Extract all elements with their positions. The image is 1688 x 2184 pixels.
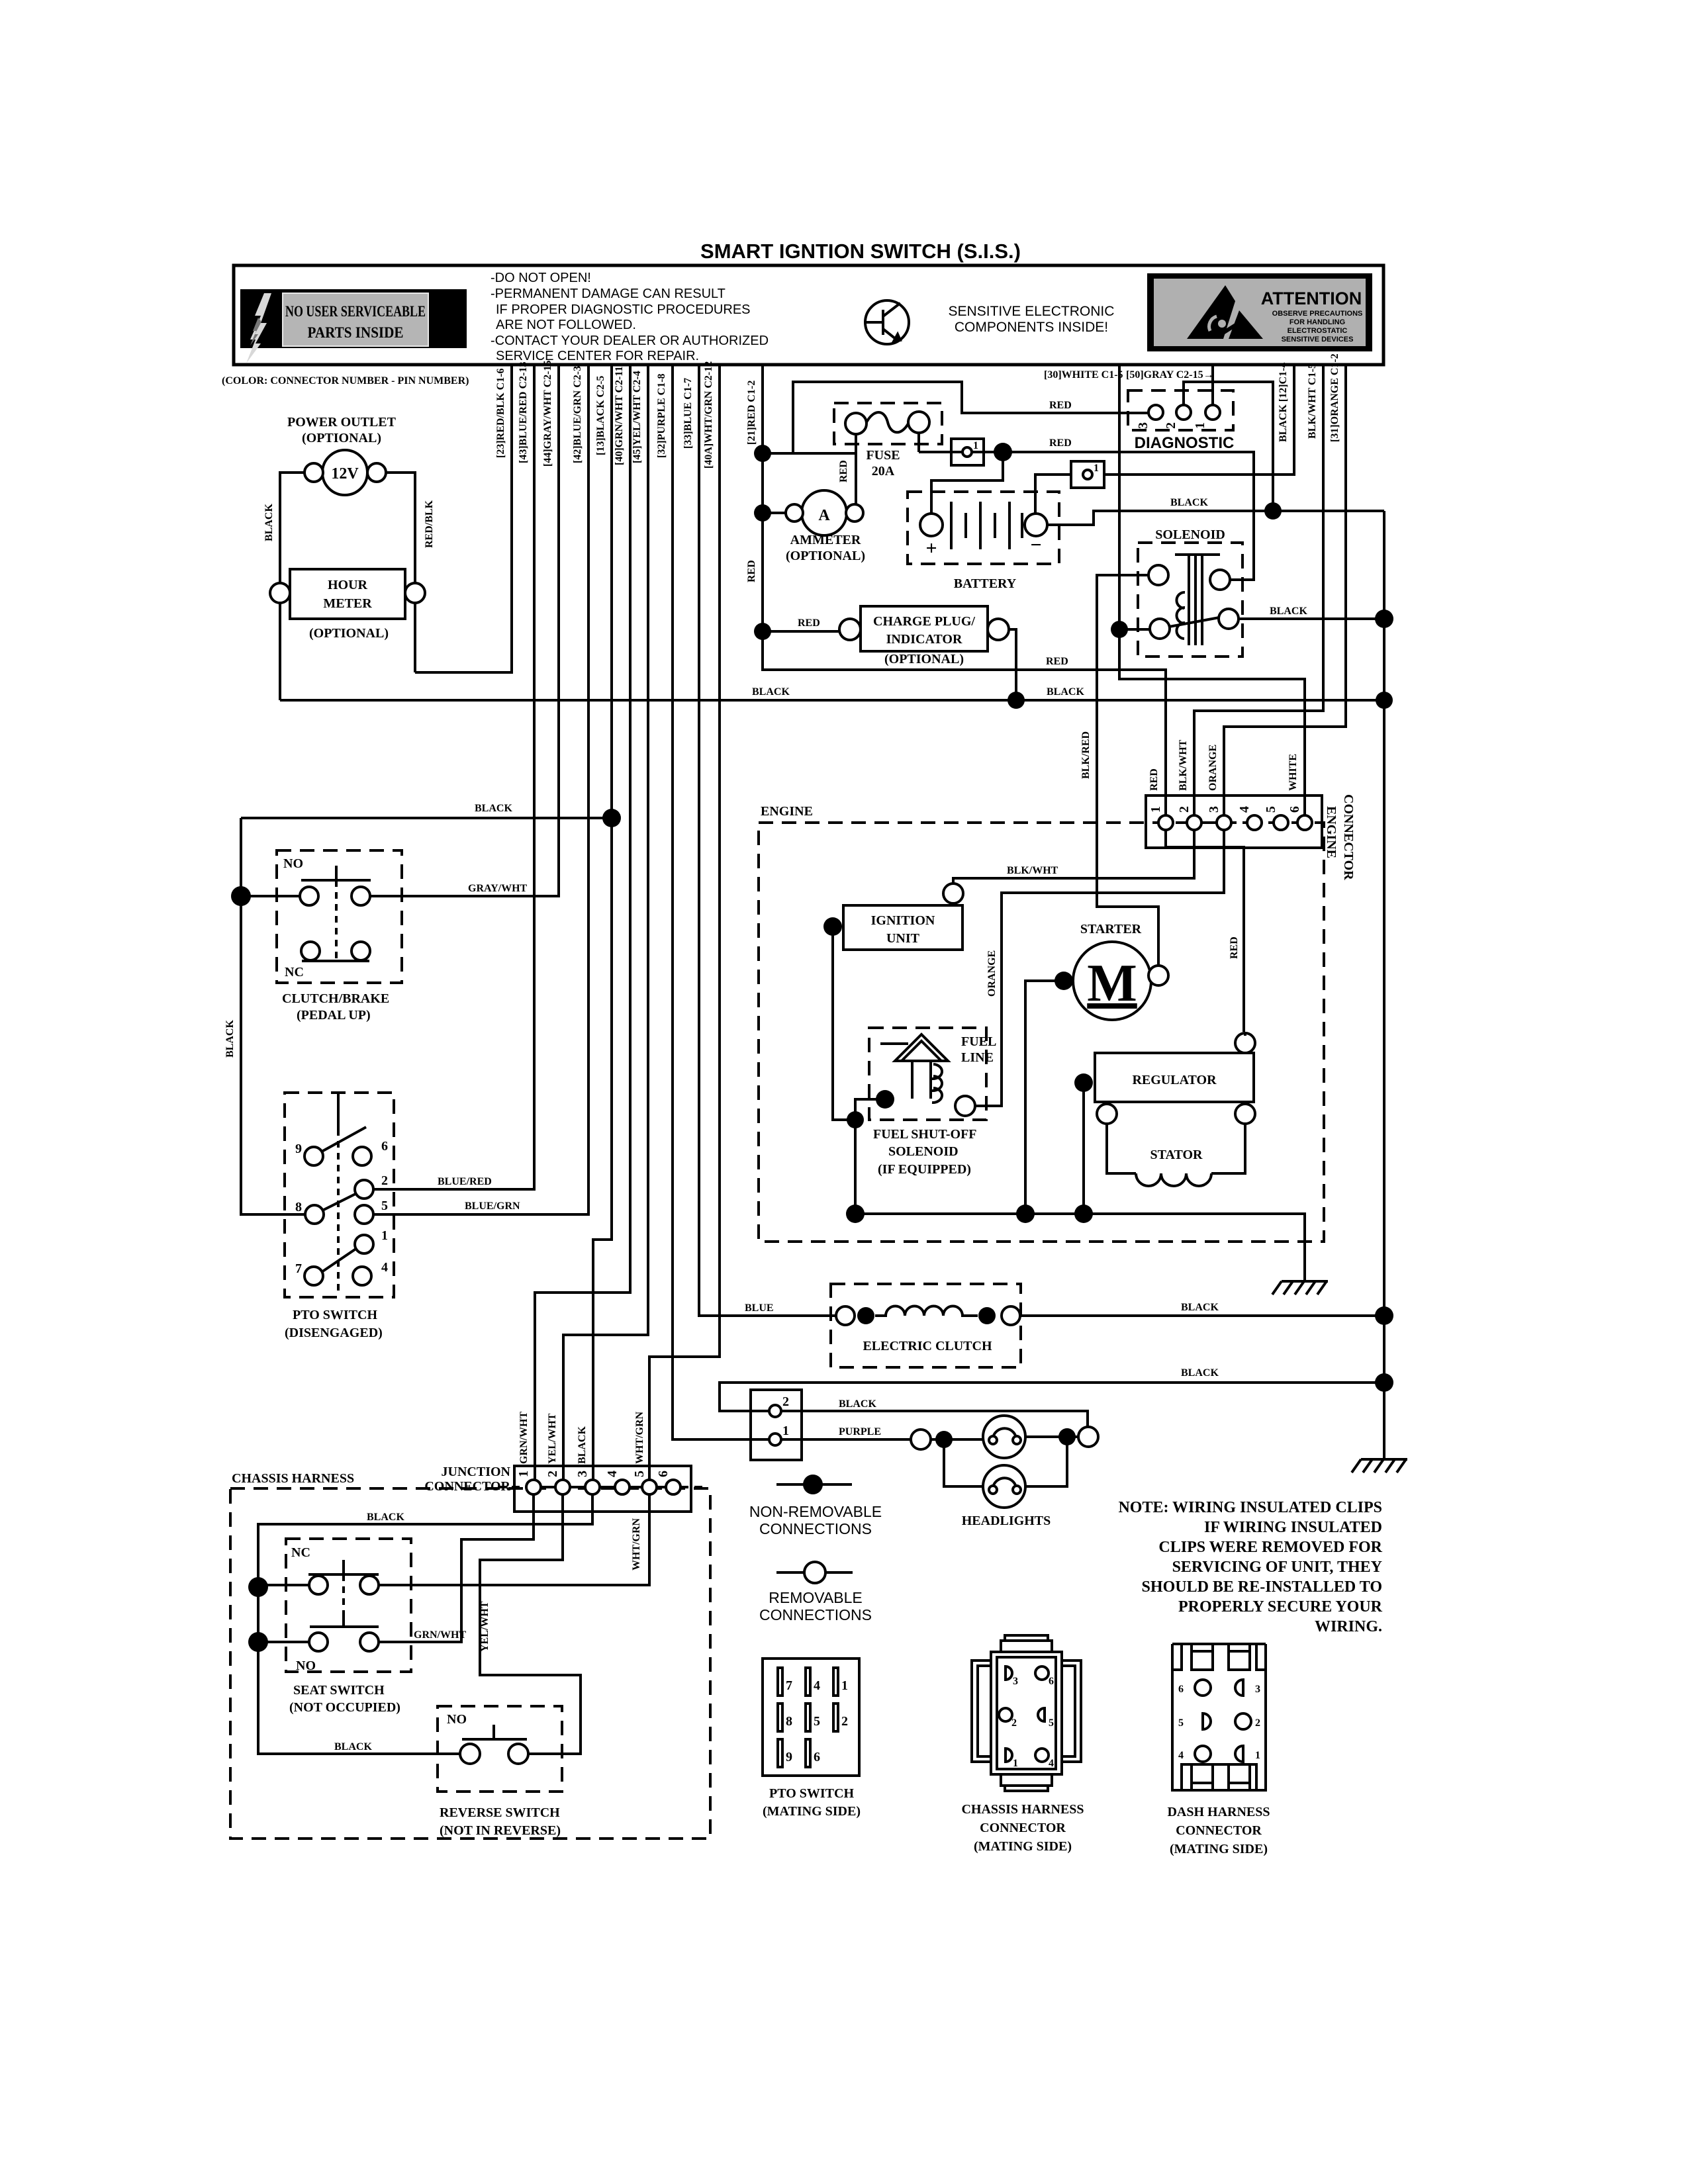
svg-text:CONNECTIONS: CONNECTIONS [759, 1606, 872, 1623]
wire seat NC right WHT/GRN to junction pin5 [379, 1494, 649, 1585]
fuel line box [869, 1028, 986, 1120]
svg-text:[32]PURPLE C1-8: [32]PURPLE C1-8 [656, 373, 667, 458]
svg-text:6: 6 [1288, 806, 1302, 813]
svg-text:GRN/WHT: GRN/WHT [414, 1629, 466, 1641]
svg-text:12V: 12V [331, 465, 359, 482]
warning label NO USER SERVICEABLE PARTS INSIDE [240, 289, 467, 348]
removable connector to battery+ [951, 439, 984, 465]
svg-text:[44]GRAY/WHT C2-15: [44]GRAY/WHT C2-15 [542, 361, 553, 467]
svg-text:(OPTIONAL): (OPTIONAL) [302, 431, 381, 445]
svg-text:BLACK: BLACK [367, 1512, 404, 1523]
ignition unit box [843, 905, 962, 950]
svg-text:FUEL: FUEL [961, 1034, 996, 1049]
svg-text:FUSE: FUSE [866, 448, 900, 463]
svg-text:2: 2 [1164, 422, 1178, 429]
svg-text:1: 1 [782, 1424, 789, 1438]
svg-text:SMART IGNTION SWITCH (S.I.S.): SMART IGNTION SWITCH (S.I.S.) [700, 240, 1021, 263]
wire electric clutch BLACK to bus [1020, 1314, 1384, 1317]
wire hour meter right to RED/BLK column [414, 603, 416, 672]
svg-text:2: 2 [545, 1471, 560, 1477]
PTO contacts [305, 1147, 323, 1165]
svg-text:BLACK: BLACK [1047, 686, 1084, 698]
svg-text:GRN/WHT: GRN/WHT [518, 1412, 530, 1464]
warning text block [491, 271, 769, 363]
svg-text:[33]BLUE C1-7: [33]BLUE C1-7 [682, 378, 694, 449]
svg-text:1: 1 [1193, 422, 1207, 429]
svg-text:SEAT SWITCH: SEAT SWITCH [293, 1683, 385, 1698]
svg-text:WHITE: WHITE [1288, 754, 1299, 791]
right BLACK bus vertical [1383, 511, 1385, 1459]
svg-text:SHOULD BE RE-INSTALLED TO: SHOULD BE RE-INSTALLED TO [1142, 1578, 1382, 1596]
svg-text:BLUE/GRN: BLUE/GRN [465, 1201, 520, 1212]
wire pin2 to ignition unit BLK/WHT [953, 830, 1194, 884]
reverse switch box [438, 1706, 562, 1792]
svg-text:(OPTIONAL): (OPTIONAL) [884, 652, 964, 666]
svg-text:5: 5 [814, 1714, 820, 1729]
fuel line symbol [880, 1034, 948, 1103]
svg-text:5: 5 [1178, 1717, 1184, 1729]
legend removable [776, 1571, 853, 1574]
ground lower right [1352, 1459, 1407, 1473]
wire pin3 to fuel solenoid ORANGE [976, 830, 1224, 1106]
svg-text:RED: RED [1049, 437, 1072, 449]
solenoid core and coil [1169, 555, 1220, 645]
svg-text:−: − [1030, 534, 1041, 556]
svg-text:SOLENOID: SOLENOID [1155, 527, 1225, 542]
svg-text:CHASSIS HARNESS: CHASSIS HARNESS [232, 1471, 354, 1486]
svg-text:BLACK [12]C1-4: BLACK [12]C1-4 [1278, 363, 1289, 442]
wire charge plug right to black bus [1009, 629, 1016, 700]
PTO switch box [285, 1093, 394, 1297]
wire ammeter bypass [763, 452, 856, 455]
svg-text:OBSERVE PRECAUTIONS: OBSERVE PRECAUTIONS [1272, 310, 1363, 318]
svg-text:3: 3 [575, 1471, 590, 1477]
svg-text:(NOT IN REVERSE): (NOT IN REVERSE) [440, 1823, 561, 1838]
node headlight right [1058, 1428, 1076, 1445]
svg-text:HOUR: HOUR [328, 578, 368, 592]
svg-text:STARTER: STARTER [1080, 922, 1142, 936]
svg-text:ATTENTION: ATTENTION [1261, 289, 1362, 308]
svg-text:[42]BLUE/GRN C2-3: [42]BLUE/GRN C2-3 [572, 366, 583, 463]
svg-text:PTO SWITCH: PTO SWITCH [293, 1308, 377, 1322]
wire [40A]WHT/GRN C2-12 column [649, 365, 720, 1480]
node black column junction [602, 809, 621, 827]
svg-text:LINE: LINE [961, 1050, 994, 1065]
engine connector pins 1-6 [1158, 815, 1173, 830]
svg-text:4: 4 [1049, 1758, 1054, 1769]
svg-text:POWER OUTLET: POWER OUTLET [287, 415, 397, 430]
power outlet 12V [322, 450, 367, 495]
svg-text:[31]ORANGE C1-2: [31]ORANGE C1-2 [1329, 353, 1340, 442]
wire [40]GRN/WHT C2-11 column [535, 365, 630, 1480]
headlight connector box [751, 1390, 802, 1460]
svg-text:STATOR: STATOR [1150, 1148, 1203, 1162]
clutch/brake switch box [277, 850, 402, 983]
svg-text:NO USER SERVICEABLE: NO USER SERVICEABLE [285, 303, 426, 320]
svg-text:SERVICING OF UNIT, THEY: SERVICING OF UNIT, THEY [1172, 1559, 1382, 1576]
svg-text:[23]RED/BLK C1-6: [23]RED/BLK C1-6 [495, 368, 506, 458]
node starter left [1055, 972, 1073, 990]
seat NO contacts [309, 1633, 328, 1651]
svg-text:9: 9 [295, 1142, 302, 1156]
svg-text:ENGINE: ENGINE [1324, 806, 1338, 858]
wire headlight right side [1025, 1435, 1078, 1438]
transistor symbol U1 [865, 300, 909, 344]
svg-text:2: 2 [381, 1173, 388, 1188]
svg-text:DASH HARNESS: DASH HARNESS [1167, 1805, 1270, 1819]
svg-text:(DISENGAGED): (DISENGAGED) [285, 1326, 383, 1340]
svg-text:(OPTIONAL): (OPTIONAL) [309, 626, 389, 641]
battery box [908, 492, 1059, 564]
svg-text:SENSITIVE DEVICES: SENSITIVE DEVICES [1282, 336, 1354, 343]
wire reverse right YEL/WHT to junction pin2 [480, 1494, 581, 1754]
wire clutch NO left [241, 895, 300, 897]
svg-text:BLACK: BLACK [1181, 1302, 1219, 1313]
svg-text:IF WIRING INSULATED: IF WIRING INSULATED [1204, 1519, 1382, 1536]
svg-text:CLUTCH/BRAKE: CLUTCH/BRAKE [282, 991, 389, 1006]
NOTE text block [1118, 1499, 1382, 1635]
svg-text:9: 9 [786, 1750, 792, 1764]
svg-text:1: 1 [973, 440, 978, 451]
seat switch box [286, 1539, 411, 1672]
svg-text:IF PROPER DIAGNOSTIC PROCEDURE: IF PROPER DIAGNOSTIC PROCEDURES [496, 302, 751, 317]
dash harness connector mating side [1172, 1644, 1266, 1790]
node black return bus [1375, 1373, 1393, 1392]
svg-text:6: 6 [1049, 1676, 1054, 1687]
chassis harness connector mating side [972, 1635, 1081, 1791]
node solenoid black to bus [1375, 610, 1393, 628]
svg-text:(PEDAL UP): (PEDAL UP) [297, 1008, 371, 1023]
svg-text:2: 2 [1011, 1717, 1017, 1729]
wire power outlet right RED/BLK [386, 473, 415, 583]
svg-text:WHT/GRN: WHT/GRN [631, 1518, 642, 1570]
wire fuse output RED to solenoid [919, 452, 1254, 580]
svg-text:ORANGE: ORANGE [1207, 745, 1219, 791]
node seat NC left [248, 1577, 268, 1597]
svg-text:REGULATOR: REGULATOR [1132, 1073, 1217, 1087]
node electric clutch bus [1375, 1306, 1393, 1325]
svg-text:CHARGE PLUG/: CHARGE PLUG/ [873, 614, 975, 629]
svg-text:SOLENOID: SOLENOID [888, 1144, 959, 1159]
svg-text:RED: RED [746, 560, 757, 582]
node fuel solenoid left [876, 1090, 894, 1109]
wire headlight BLACK return [720, 1383, 1384, 1411]
svg-text:REMOVABLE: REMOVABLE [769, 1589, 862, 1606]
svg-text:CONNECTOR: CONNECTOR [980, 1821, 1066, 1835]
svg-text:NOTE: WIRING INSULATED CLIPS: NOTE: WIRING INSULATED CLIPS [1118, 1499, 1382, 1516]
wire BLACK bottom bus [280, 699, 1384, 702]
svg-text:IGNITION: IGNITION [871, 913, 935, 928]
wire fuse left riser RED [855, 434, 857, 513]
wire pin1 to regulator [1166, 830, 1244, 1032]
wire BLK/WHT C1-5 column [1194, 365, 1323, 816]
svg-text:6: 6 [1178, 1684, 1184, 1695]
svg-text:METER: METER [323, 596, 372, 611]
wire seat left vertical to reverse [258, 1587, 460, 1754]
svg-text:WIRING.: WIRING. [1315, 1618, 1382, 1635]
PTO blades [322, 1127, 366, 1152]
svg-text:YEL/WHT: YEL/WHT [547, 1413, 558, 1464]
column labels (rotated) [495, 353, 1340, 469]
wire [42]BLUE/GRN C2-3 column [373, 365, 588, 1214]
svg-text:JUNCTION: JUNCTION [442, 1465, 511, 1479]
svg-text:1: 1 [516, 1471, 531, 1477]
svg-text:BLUE/RED: BLUE/RED [438, 1176, 492, 1187]
svg-text:BATTERY: BATTERY [954, 576, 1017, 591]
wire solenoid top-left to BLK/RED [1097, 575, 1158, 966]
wire power outlet left BLACK [280, 473, 305, 582]
svg-text:YEL/WHT: YEL/WHT [479, 1601, 491, 1652]
svg-text:(MATING SIDE): (MATING SIDE) [974, 1839, 1072, 1854]
svg-text:(COLOR: CONNECTOR NUMBER - PIN: (COLOR: CONNECTOR NUMBER - PIN NUMBER) [222, 375, 469, 387]
svg-text:HEADLIGHTS: HEADLIGHTS [962, 1514, 1051, 1528]
node diag pin2 on black wire [1264, 502, 1282, 520]
svg-text:M: M [1087, 954, 1137, 1013]
svg-text:CHASSIS HARNESS: CHASSIS HARNESS [961, 1802, 1084, 1817]
svg-text:AMMETER: AMMETER [790, 533, 861, 547]
svg-text:RED/BLK: RED/BLK [424, 500, 435, 548]
diagnostic connector box [1128, 390, 1233, 430]
svg-text:3: 3 [1013, 1676, 1018, 1687]
svg-text:CONNECTOR: CONNECTOR [1176, 1823, 1262, 1838]
svg-text:3: 3 [1136, 422, 1150, 429]
svg-text:ORANGE: ORANGE [986, 950, 998, 997]
svg-text:7: 7 [786, 1678, 792, 1693]
svg-text:BLACK: BLACK [475, 803, 512, 814]
wire [13]BLACK C2-5 column [593, 365, 612, 1480]
svg-text:6: 6 [656, 1471, 671, 1477]
svg-text:(NOT OCCUPIED): (NOT OCCUPIED) [289, 1700, 400, 1715]
wire BLACK clutch-brake top [241, 817, 612, 819]
regulator box [1095, 1053, 1254, 1102]
node fuel ignition junction [847, 1111, 864, 1128]
svg-text:BLACK: BLACK [577, 1426, 588, 1464]
svg-text:BLK/RED: BLK/RED [1080, 731, 1092, 779]
svg-text:2: 2 [841, 1714, 848, 1729]
svg-text:RED: RED [838, 460, 849, 482]
battery plates [951, 502, 1022, 549]
seat NC contacts [309, 1576, 328, 1594]
svg-text:5: 5 [1049, 1717, 1054, 1729]
svg-text:BLK/WHT: BLK/WHT [1178, 739, 1189, 791]
removable connector headlight left [911, 1430, 931, 1449]
svg-text:[40A]WHT/GRN C2-12: [40A]WHT/GRN C2-12 [703, 361, 714, 469]
wire black left vertical [241, 818, 305, 1214]
svg-text:PTO SWITCH: PTO SWITCH [769, 1786, 854, 1801]
svg-text:BLACK: BLACK [263, 504, 275, 541]
node charge plug to black bus [1008, 692, 1025, 709]
svg-text:PROPERLY SECURE YOUR: PROPERLY SECURE YOUR [1178, 1598, 1383, 1615]
wire white column branch to solenoid lower left [1119, 628, 1150, 631]
svg-text:NO: NO [447, 1712, 467, 1727]
svg-text:1: 1 [1149, 806, 1163, 813]
removable connector headlight right [1078, 1427, 1098, 1447]
wire [43]BLUE/RED C2-13 column [373, 365, 534, 1189]
svg-text:20A: 20A [872, 464, 895, 478]
wire [50]GRAY C2-15 column [1211, 365, 1214, 405]
wire battery+ riser [931, 452, 1003, 514]
clutch NC contacts [301, 942, 320, 960]
wire junction pin3 BLACK to seat switch [258, 1494, 592, 1587]
svg-text:2: 2 [782, 1394, 789, 1409]
PTO pin numbers [295, 1139, 388, 1276]
charge plug box [861, 606, 988, 651]
node headlight left [935, 1431, 953, 1448]
headlight 2 [983, 1465, 1025, 1508]
svg-text:6: 6 [381, 1139, 388, 1154]
svg-text:ARE NOT FOLLOWED.: ARE NOT FOLLOWED. [496, 318, 636, 332]
svg-text:7: 7 [295, 1261, 302, 1276]
svg-text:BLK/WHT: BLK/WHT [1007, 865, 1058, 876]
wire BLACK [12]C1-4 column [1105, 365, 1294, 475]
legend non-removable [776, 1483, 852, 1486]
svg-text:2: 2 [1177, 806, 1192, 813]
svg-text:4: 4 [1178, 1750, 1184, 1761]
node seat NO left [248, 1632, 268, 1652]
svg-text:RED: RED [798, 617, 820, 629]
svg-text:RED: RED [1229, 936, 1240, 959]
svg-text:2: 2 [1255, 1717, 1260, 1729]
svg-text:BLACK: BLACK [839, 1398, 876, 1410]
clutch NO contacts [300, 887, 318, 905]
node black bus to right bus [1376, 692, 1393, 709]
ground engine [1272, 1281, 1328, 1295]
svg-text:8: 8 [786, 1714, 792, 1729]
svg-text:INDICATOR: INDICATOR [886, 632, 962, 647]
svg-text:CONNECTIONS: CONNECTIONS [759, 1520, 872, 1537]
svg-text:1: 1 [1094, 463, 1099, 474]
wire diagnostic pin2 to black node [1184, 382, 1273, 511]
svg-text:(IF EQUIPPED): (IF EQUIPPED) [878, 1162, 971, 1177]
svg-text:4: 4 [814, 1678, 820, 1693]
svg-text:COMPONENTS INSIDE!: COMPONENTS INSIDE! [955, 320, 1108, 335]
svg-text:[45]YEL/WHT C2-4: [45]YEL/WHT C2-4 [632, 371, 643, 463]
svg-text:RED: RED [1049, 400, 1072, 411]
svg-text:BLACK: BLACK [1270, 606, 1307, 617]
svg-text:WHT/GRN: WHT/GRN [634, 1411, 645, 1464]
svg-text:GRAY/WHT: GRAY/WHT [468, 883, 528, 894]
svg-text:-PERMANENT DAMAGE CAN RESULT: -PERMANENT DAMAGE CAN RESULT [491, 287, 726, 301]
svg-text:SERVICE CENTER FOR REPAIR.: SERVICE CENTER FOR REPAIR. [496, 349, 699, 363]
junction connector pins 1-6 [526, 1480, 541, 1494]
svg-text:FOR HANDLING: FOR HANDLING [1289, 318, 1345, 326]
removable connector battery minus [1071, 461, 1104, 488]
node on RED column at fuse branch [754, 445, 771, 462]
svg-text:RED: RED [1046, 656, 1068, 667]
svg-text:-CONTACT YOUR DEALER OR AUTHOR: -CONTACT YOUR DEALER OR AUTHORIZED [491, 334, 769, 348]
svg-text:5: 5 [632, 1471, 647, 1477]
wire starter to engine ground [1025, 981, 1064, 1214]
wire [32]PURPLE C1-8 column [673, 365, 770, 1439]
svg-text:+: + [925, 537, 937, 559]
svg-text:!: ! [440, 298, 454, 343]
svg-text:(OPTIONAL): (OPTIONAL) [786, 549, 865, 563]
wire ignition unit to engine ground net [833, 927, 855, 1120]
wire fuse right down [917, 433, 920, 452]
wire [44]GRAY/WHT C2-15 column [370, 365, 559, 896]
wire [31]ORANGE C1-2 column [1224, 365, 1346, 816]
svg-text:BLACK: BLACK [752, 686, 790, 698]
svg-text:ENGINE: ENGINE [761, 804, 813, 819]
svg-text:3: 3 [1207, 806, 1221, 813]
svg-text:SENSITIVE ELECTRONIC: SENSITIVE ELECTRONIC [949, 304, 1115, 319]
ammeter A1 [802, 490, 847, 535]
svg-text:PARTS INSIDE: PARTS INSIDE [308, 324, 404, 341]
svg-text:8: 8 [295, 1200, 302, 1214]
wire hour meter left down to black bus [279, 603, 281, 700]
svg-text:5: 5 [381, 1199, 388, 1213]
starter motor M [1073, 942, 1151, 1020]
svg-text:ELECTRIC CLUTCH: ELECTRIC CLUTCH [863, 1339, 992, 1353]
wire [30]WHITE C1-5 column [1119, 365, 1305, 816]
svg-text:1: 1 [841, 1678, 848, 1693]
svg-text:[50]GRAY C2-15→: [50]GRAY C2-15→ [1126, 369, 1214, 381]
svg-text:DIAGNOSTIC: DIAGNOSTIC [1135, 434, 1235, 452]
svg-text:[13]BLACK C2-5: [13]BLACK C2-5 [595, 376, 606, 455]
svg-text:UNIT: UNIT [886, 931, 920, 946]
node regulator left [1074, 1073, 1093, 1092]
node fuse output junction [994, 443, 1012, 461]
wire seat NC contacts [258, 1584, 309, 1586]
svg-text:CLIPS WERE REMOVED FOR: CLIPS WERE REMOVED FOR [1158, 1539, 1382, 1556]
top warning box frame [234, 265, 1383, 365]
attention ESD label [1147, 273, 1372, 351]
wire [33]BLUE C1-7 column [699, 365, 836, 1316]
svg-text:NON-REMOVABLE: NON-REMOVABLE [749, 1503, 882, 1520]
svg-text:NC: NC [291, 1545, 310, 1560]
wire battery minus up to BLACK 12 wire [1035, 475, 1071, 514]
wire ammeter left to RED column [763, 512, 786, 514]
svg-text:1: 1 [1013, 1758, 1018, 1769]
wire RED to diagnostic pin3 [793, 382, 1149, 453]
wire [23]RED/BLK C1-6 column [415, 365, 512, 672]
engine ground bus [855, 1214, 1305, 1281]
headlight 1 [983, 1416, 1025, 1458]
svg-text:[40]GRN/WHT C2-11: [40]GRN/WHT C2-11 [614, 367, 625, 465]
hour meter [290, 569, 405, 619]
wire fuel solenoid to ground net [855, 1099, 885, 1214]
svg-text:BLACK: BLACK [1181, 1367, 1219, 1379]
svg-text:3: 3 [1255, 1684, 1260, 1695]
wire pin2 right BLACK [781, 1411, 1088, 1427]
node ammeter on RED column [754, 504, 771, 522]
junction connector box [514, 1466, 691, 1512]
node white column solenoid branch [1111, 621, 1128, 638]
wire charge plug left RED to column [763, 630, 839, 633]
wire headlight parallel left [944, 1439, 984, 1486]
svg-text:4: 4 [605, 1471, 620, 1477]
wire regulator to engine ground [1082, 1083, 1085, 1214]
svg-text:1: 1 [1255, 1750, 1260, 1761]
node clutch brake left [231, 886, 251, 906]
svg-text:A: A [818, 507, 830, 524]
PTO switch mating side [763, 1659, 859, 1776]
wire seat NO right GRN/WHT to junction pin1 [379, 1494, 534, 1642]
svg-text:(MATING SIDE): (MATING SIDE) [763, 1804, 861, 1819]
svg-text:[30]WHITE C1-5: [30]WHITE C1-5 [1044, 369, 1123, 381]
wire regulator bottom circles to box [1107, 1033, 1245, 1104]
fuse F1 box [834, 403, 942, 444]
wire battery minus right BLACK [1047, 511, 1384, 525]
svg-text:4: 4 [381, 1260, 388, 1275]
svg-text:-DO NOT OPEN!: -DO NOT OPEN! [491, 271, 591, 285]
svg-text:BLUE: BLUE [745, 1302, 774, 1314]
wire pin1 PURPLE to headlights [781, 1438, 911, 1441]
svg-text:RED: RED [1149, 768, 1160, 791]
svg-text:CONNECTOR: CONNECTOR [1341, 794, 1356, 880]
svg-text:NO: NO [283, 856, 303, 871]
wire [45]YEL/WHT C2-4 column [563, 365, 648, 1480]
